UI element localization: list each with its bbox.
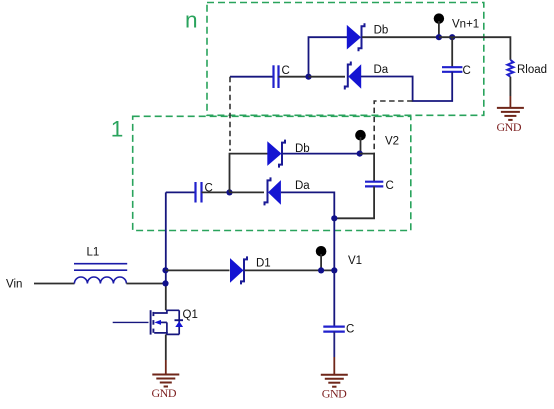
svg-text:GND: GND (497, 120, 522, 134)
wire (stage n Da row, junction to bar) (309, 76, 346, 78)
wire (cap to ground, V1) (333, 332, 335, 357)
svg-text:V2: V2 (385, 136, 399, 148)
capacitor C (stage n series) (274, 65, 279, 88)
svg-text:L1: L1 (87, 247, 100, 259)
node (Vn+1 stem junction) (436, 34, 442, 40)
ground (V1) (321, 375, 348, 387)
wire (D1 to V1 node) (245, 269, 335, 271)
wire (stage 1 cap left) (166, 191, 196, 193)
ground (Rload) (497, 108, 524, 120)
wire (stage 1 Da row, junction to bar) (230, 191, 265, 193)
node (Vn+1 cap junction) (449, 34, 455, 40)
stage box 1 (133, 116, 411, 230)
wire (stage 1 cap left corner down to Q1 drain) (165, 192, 167, 283)
diode Db (stage 1) (267, 140, 285, 168)
svg-text:Da: Da (295, 180, 310, 192)
svg-text:C: C (386, 180, 394, 192)
diode Db (stage n) (347, 23, 365, 51)
wire (L1 to junction) (126, 283, 165, 285)
diode Da (stage 1) (265, 177, 281, 205)
svg-text:Vn+1: Vn+1 (452, 18, 479, 30)
svg-text:n: n (185, 7, 198, 32)
wire (stage n Da to cap bottom) (361, 72, 452, 101)
wire (dashed link from stage n cap down to stage 1) (229, 77, 231, 151)
diode Da (stage n) (345, 62, 361, 90)
wire (V2 node to cap, stage 1) (360, 154, 374, 182)
svg-text:Rload: Rload (517, 64, 547, 76)
stage box n (207, 3, 484, 116)
svg-text:D1: D1 (256, 258, 271, 270)
wire (junction up to Db row, stage 1) (230, 154, 268, 193)
wire (stage 1 node down to V1 row) (333, 218, 335, 270)
wire (junction up to Db row, stage n) (309, 37, 348, 76)
node (stage n cap junction) (305, 74, 311, 80)
wire (node down to cap, stage n) (451, 37, 453, 67)
wire (stage n cap left) (230, 76, 274, 78)
svg-text:C: C (282, 65, 290, 77)
node (stage 1 lower node) (331, 215, 337, 221)
svg-text:1: 1 (111, 117, 124, 142)
resistor Rload (507, 60, 513, 77)
wire (stage 1 cap bottom to node) (334, 186, 374, 218)
ground (Q1) (152, 375, 179, 387)
diode D1 (230, 256, 247, 284)
wire (stage 1 Da to lower node) (281, 192, 334, 218)
svg-text:V1: V1 (348, 255, 362, 267)
transistor Q1 (113, 310, 183, 334)
node (stage 1 cap junction) (226, 189, 232, 195)
wire (Db to Vn+1 node) (362, 36, 439, 38)
capacitor C (stage 1 series) (196, 182, 202, 203)
wire (gate lead) (113, 321, 149, 323)
inductor L1 (74, 264, 127, 284)
node (D1 row junction) (162, 267, 168, 273)
capacitor C (stage n output) (442, 67, 462, 72)
svg-text:C: C (463, 65, 471, 77)
node (V1 cap junction) (331, 267, 337, 273)
wire (Vn+1 node to Rload corner) (439, 37, 511, 60)
node (V1 stem junction) (318, 267, 324, 273)
wire (Rload to ground) (509, 77, 511, 96)
terminal V1 (316, 246, 327, 270)
wire (dashed link stage n bottom to V2 node) (374, 101, 412, 153)
svg-text:Vin: Vin (6, 279, 22, 291)
svg-text:GND: GND (152, 386, 177, 400)
wire (V1 node down to cap) (333, 270, 335, 326)
terminal Vn+1 (434, 13, 444, 37)
node (L1 row junction) (162, 280, 168, 286)
wire (cap to junction, stage n) (279, 76, 309, 78)
wire (Q1 source to ground) (165, 334, 167, 360)
terminal V2 (355, 130, 366, 154)
wire (Db to V2 node) (283, 153, 360, 155)
wire (junction down to Q1) (165, 283, 167, 310)
svg-text:C: C (346, 324, 354, 336)
svg-text:GND: GND (322, 387, 347, 401)
wire (junction to D1) (166, 269, 230, 271)
capacitor C (stage 1 output) (365, 182, 383, 187)
wire (Vin to L1) (34, 283, 75, 285)
svg-text:Db: Db (374, 24, 389, 36)
wire (cap to junction, stage 1) (202, 191, 230, 193)
svg-text:Da: Da (374, 64, 389, 76)
node (V2 junction) (357, 151, 363, 157)
svg-text:Q1: Q1 (183, 309, 198, 321)
capacitor C (V1 output) (323, 327, 345, 332)
